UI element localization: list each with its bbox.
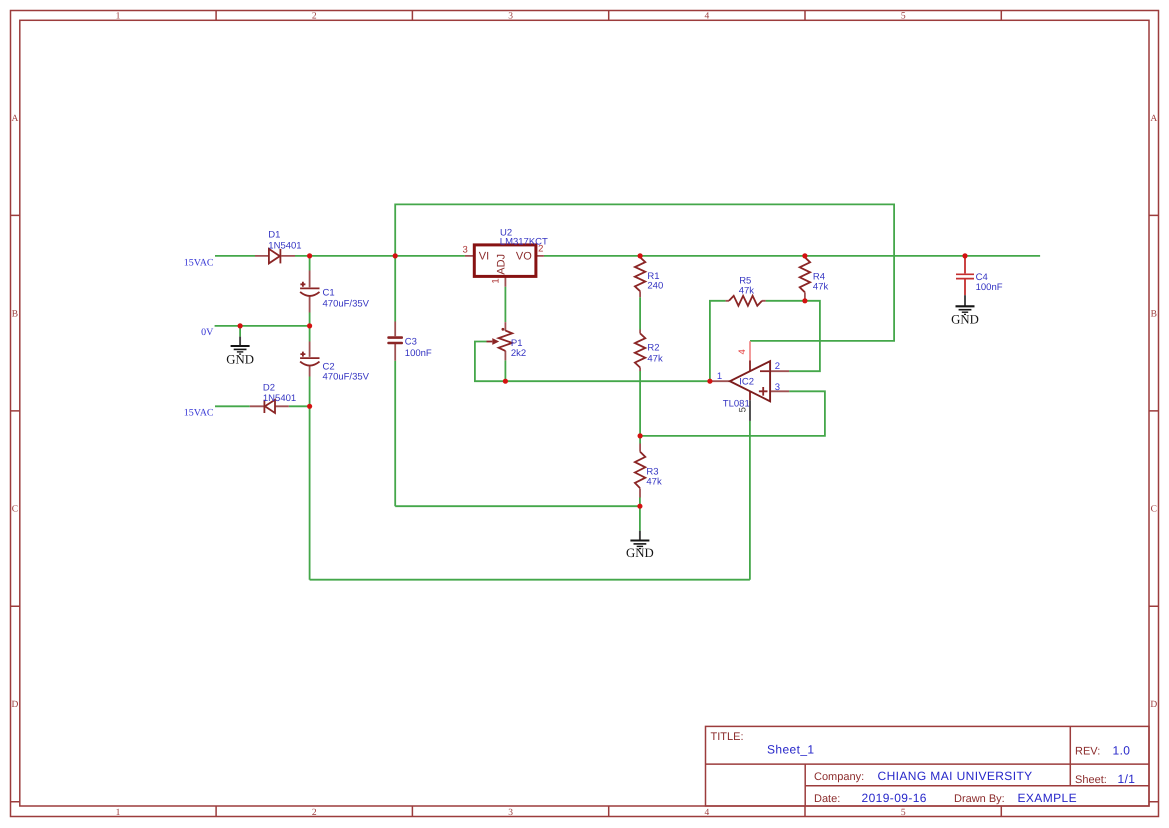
svg-text:5: 5 [901, 808, 906, 818]
svg-text:1: 1 [116, 12, 121, 22]
svg-text:GND: GND [951, 313, 979, 327]
junction rail / R4 [802, 253, 807, 258]
wire C1 bottom to 0V node [309, 313, 311, 326]
svg-text:Drawn By:: Drawn By: [954, 793, 1005, 805]
resistor R4 47k [800, 257, 810, 301]
svg-text:C: C [1151, 505, 1157, 515]
resistor R3 47k [635, 444, 645, 498]
svg-text:47k: 47k [739, 286, 755, 297]
junction 0V / GND [238, 323, 243, 328]
svg-text:240: 240 [647, 280, 663, 291]
junction rail / C3 top [393, 253, 398, 258]
wire 15VAC bottom to D2 [215, 405, 250, 407]
wire rail to C3 [394, 256, 396, 322]
svg-text:2: 2 [775, 361, 780, 372]
svg-text:VO: VO [516, 250, 532, 262]
wire bottom rail up to IC2 pin5 [749, 421, 751, 580]
wire D2 to node [289, 405, 310, 407]
svg-text:D: D [1150, 700, 1157, 710]
junction R3 bottom / GND [637, 504, 642, 509]
wire 0V label to node [215, 325, 310, 327]
resistor R5 47k [726, 296, 766, 306]
ground GND (C4) [951, 306, 979, 326]
svg-text:0V: 0V [201, 327, 214, 338]
junction rail / C4 [962, 253, 967, 258]
svg-text:15VAC: 15VAC [184, 257, 214, 268]
junction P1 bottom node [503, 379, 508, 384]
wire R2 to R3 node [639, 371, 641, 436]
svg-text:47k: 47k [647, 354, 663, 365]
junction R4 / R5 / pin2 [802, 298, 807, 303]
wire 0V node to C2 top [309, 326, 311, 342]
wire 0V node to GND [239, 326, 241, 337]
svg-text:4: 4 [737, 349, 748, 354]
svg-text:A: A [1150, 114, 1157, 124]
wire C3 bottom down [394, 361, 396, 506]
svg-text:4: 4 [705, 12, 710, 22]
svg-text:2k2: 2k2 [511, 348, 526, 359]
svg-text:ADJ: ADJ [496, 254, 508, 275]
regulator U2 LM317KCT [465, 245, 544, 287]
wire node to C1 top [309, 256, 311, 271]
svg-text:3: 3 [462, 245, 467, 256]
wire top loop [395, 204, 894, 341]
svg-text:Sheet:: Sheet: [1075, 774, 1107, 786]
svg-text:3: 3 [508, 12, 513, 22]
svg-text:REV:: REV: [1075, 746, 1100, 758]
wire R5 right to pin2 loop [766, 301, 820, 371]
capacitor C4 100nF [956, 256, 974, 306]
junction 0V / C1-C2 [307, 323, 312, 328]
svg-text:47k: 47k [646, 477, 662, 488]
wire C2 bottom to D2 node [309, 377, 311, 407]
wire D1 to U2 VI [295, 255, 465, 257]
svg-text:2: 2 [312, 12, 317, 22]
svg-text:3: 3 [775, 382, 780, 393]
svg-text:1/1: 1/1 [1118, 772, 1136, 786]
wire D2 node down to bottom rail [309, 406, 311, 579]
svg-text:A: A [11, 114, 18, 124]
wire R3 top lead joint [639, 436, 641, 444]
title block [706, 726, 1150, 806]
wire P1 wiper loop [475, 342, 506, 382]
svg-text:C: C [12, 505, 18, 515]
diode D1 1N5401 [255, 249, 295, 264]
svg-text:R2: R2 [647, 343, 659, 354]
svg-text:1: 1 [116, 808, 121, 818]
svg-text:3: 3 [508, 808, 513, 818]
wire bottom left to R3 bottom [395, 505, 640, 507]
svg-text:100nF: 100nF [976, 282, 1003, 293]
wire U2 pin1 to P1 [504, 287, 506, 322]
svg-text:D: D [11, 700, 18, 710]
svg-text:1N5401: 1N5401 [268, 241, 301, 252]
junction D2 output node [307, 404, 312, 409]
capacitor C3 100nF [387, 322, 403, 361]
junction IC2 pin1 node [707, 379, 712, 384]
ground GND (R3) [626, 531, 654, 560]
capacitor C1 470uF/35V [300, 271, 319, 313]
svg-text:1: 1 [490, 278, 501, 283]
wire U2 VO to rail right end [544, 255, 1040, 257]
svg-text:1.0: 1.0 [1113, 744, 1131, 758]
wire P1 node to IC2 pin1 [505, 380, 710, 382]
svg-text:2019-09-16: 2019-09-16 [862, 791, 927, 805]
svg-text:D1: D1 [268, 229, 280, 240]
svg-text:TITLE:: TITLE: [711, 731, 744, 743]
junction R2 / R3 / pin3 [638, 433, 643, 438]
svg-text:5: 5 [738, 407, 749, 412]
potentiometer P1 2k2 [487, 322, 513, 360]
svg-text:B: B [1151, 309, 1157, 319]
svg-text:D2: D2 [263, 382, 275, 393]
svg-text:GND: GND [226, 353, 254, 367]
svg-text:Date:: Date: [814, 793, 840, 805]
diode D2 1N5401 [250, 400, 289, 413]
wire R5 left vertical [710, 301, 726, 381]
svg-text:VI: VI [479, 250, 489, 262]
wire R3 bottom to GND [639, 498, 641, 531]
op-amp IC2 TL081 [710, 341, 789, 421]
svg-text:C3: C3 [405, 337, 417, 348]
svg-text:47k: 47k [813, 282, 829, 293]
svg-text:EXAMPLE: EXAMPLE [1018, 791, 1078, 805]
junction D1 output node [307, 253, 312, 258]
svg-text:CHIANG MAI UNIVERSITY: CHIANG MAI UNIVERSITY [878, 769, 1033, 783]
ground GND (0V net) [226, 337, 254, 367]
svg-text:IC2: IC2 [739, 376, 754, 387]
wire R1 to R2 [639, 297, 641, 329]
svg-text:5: 5 [901, 12, 906, 22]
svg-text:2: 2 [312, 808, 317, 818]
svg-text:Sheet_1: Sheet_1 [767, 743, 815, 757]
svg-text:C1: C1 [323, 287, 335, 298]
wire pin3 loop [640, 391, 825, 436]
capacitor C2 470uF/35V [300, 342, 319, 377]
wire P1 bottom [504, 360, 506, 381]
wire 15VAC top to D1 [215, 255, 255, 257]
svg-text:GND: GND [626, 546, 654, 560]
svg-text:4: 4 [705, 808, 710, 818]
svg-text:1: 1 [717, 371, 722, 382]
svg-text:Company:: Company: [814, 771, 864, 783]
svg-text:470uF/35V: 470uF/35V [323, 371, 370, 382]
svg-text:1N5401: 1N5401 [263, 393, 296, 404]
svg-text:470uF/35V: 470uF/35V [323, 299, 370, 310]
junction rail / R1 [638, 253, 643, 258]
wire bottom rail [310, 579, 750, 581]
resistor R1 240 [635, 257, 645, 297]
svg-text:B: B [12, 309, 18, 319]
svg-text:15VAC: 15VAC [184, 408, 214, 419]
resistor R2 47k [635, 330, 645, 372]
svg-text:100nF: 100nF [405, 348, 432, 359]
svg-text:LM317KCT: LM317KCT [500, 237, 548, 248]
